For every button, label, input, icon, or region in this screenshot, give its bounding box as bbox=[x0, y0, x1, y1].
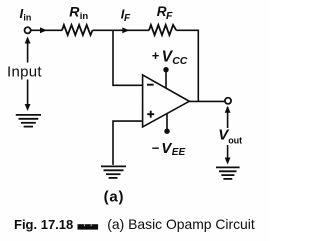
svg-text:(a) Basic Opamp Circuit: (a) Basic Opamp Circuit bbox=[107, 216, 255, 232]
svg-text:in: in bbox=[23, 12, 31, 22]
svg-text:R: R bbox=[69, 3, 80, 19]
svg-text:EE: EE bbox=[172, 147, 186, 158]
svg-text:out: out bbox=[228, 136, 242, 146]
svg-text:+: + bbox=[152, 48, 160, 63]
svg-text:F: F bbox=[124, 13, 131, 24]
svg-text:Fig. 17.18: Fig. 17.18 bbox=[14, 217, 73, 232]
svg-text:F: F bbox=[166, 10, 173, 22]
svg-text:in: in bbox=[80, 11, 89, 22]
svg-text:(a): (a) bbox=[104, 189, 125, 206]
svg-text:Input: Input bbox=[7, 64, 42, 81]
svg-text:−: − bbox=[152, 140, 160, 155]
svg-text:CC: CC bbox=[172, 55, 188, 67]
